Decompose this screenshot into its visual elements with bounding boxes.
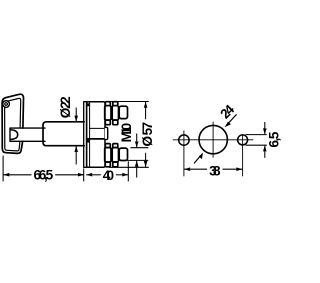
shaft neck slot [10, 128, 23, 141]
svg-text:38: 38 [209, 163, 221, 178]
dim M10 arrow bottom [136, 161, 138, 178]
dim 6,5 extension bottom [246, 144, 267, 146]
dim 40 line [86, 174, 101, 176]
upper terminal column 1 [105, 102, 111, 125]
shaft [43, 122, 84, 146]
dim 6,5 arrow top [264, 122, 266, 134]
dimension graphics [3, 102, 149, 182]
dim 6,5 arrow bottom [264, 146, 266, 158]
dim M10 extension bottom [126, 159, 149, 161]
screw hole left vertical line [183, 131, 185, 177]
svg-text:Ø 22: Ø 22 [58, 96, 73, 118]
dim M10 arrow top [136, 134, 138, 148]
upper terminal column 2 [112, 102, 118, 125]
mounting hole big circle [199, 125, 227, 153]
dim Ø22 leader lower [75, 146, 77, 164]
dim 6,5 extension top [246, 134, 267, 136]
dim 24 leader [227, 114, 237, 125]
lower terminal column 2 [112, 144, 118, 167]
body divider upper [90, 127, 105, 129]
dim Ø22 leader upper [75, 108, 77, 122]
dim 38 line [184, 168, 207, 170]
key handle hole [3, 101, 10, 108]
lower terminal stud M10 [119, 148, 127, 160]
mounting view [173, 122, 254, 177]
body divider lower [87, 138, 105, 140]
labels [33, 96, 281, 183]
dim Ø57 extension bottom [109, 166, 149, 168]
centerline horizontal [173, 139, 254, 141]
lower terminal column 1 [105, 144, 111, 167]
shaft neck lines [23, 128, 45, 141]
flange plate [84, 102, 87, 168]
dim Ø57 extension top [106, 101, 149, 103]
upper terminal stud M10 [119, 106, 127, 118]
shaft dome end [11, 130, 18, 140]
dim 66,5 extension line left [2, 156, 4, 182]
screw hole right vertical line [242, 134, 244, 176]
leader arrow lower left [194, 155, 201, 163]
body face line [89, 102, 91, 167]
body tab [105, 127, 108, 139]
svg-text:6,5: 6,5 [267, 131, 282, 147]
dim 66,5 extension line right [83, 169, 85, 182]
body outline [87, 102, 105, 168]
screw hole right [238, 135, 248, 145]
svg-text:Ø 57: Ø 57 [140, 122, 155, 147]
dim 40 extension line right [127, 161, 129, 181]
dim M10 extension top [131, 147, 149, 149]
body corner mark mid [87, 140, 90, 143]
key handle inner outline [5, 98, 21, 151]
screw hole left [179, 135, 189, 145]
svg-text:66,5: 66,5 [33, 167, 53, 182]
dim Ø57 line [145, 102, 147, 119]
body corner mark top [87, 103, 90, 106]
svg-text:M 10: M 10 [119, 123, 134, 143]
dim 66,5 line [3, 174, 31, 176]
centerline vertical big circle [212, 122, 214, 158]
key handle outer outline [2, 94, 23, 153]
svg-text:40: 40 [103, 168, 114, 183]
